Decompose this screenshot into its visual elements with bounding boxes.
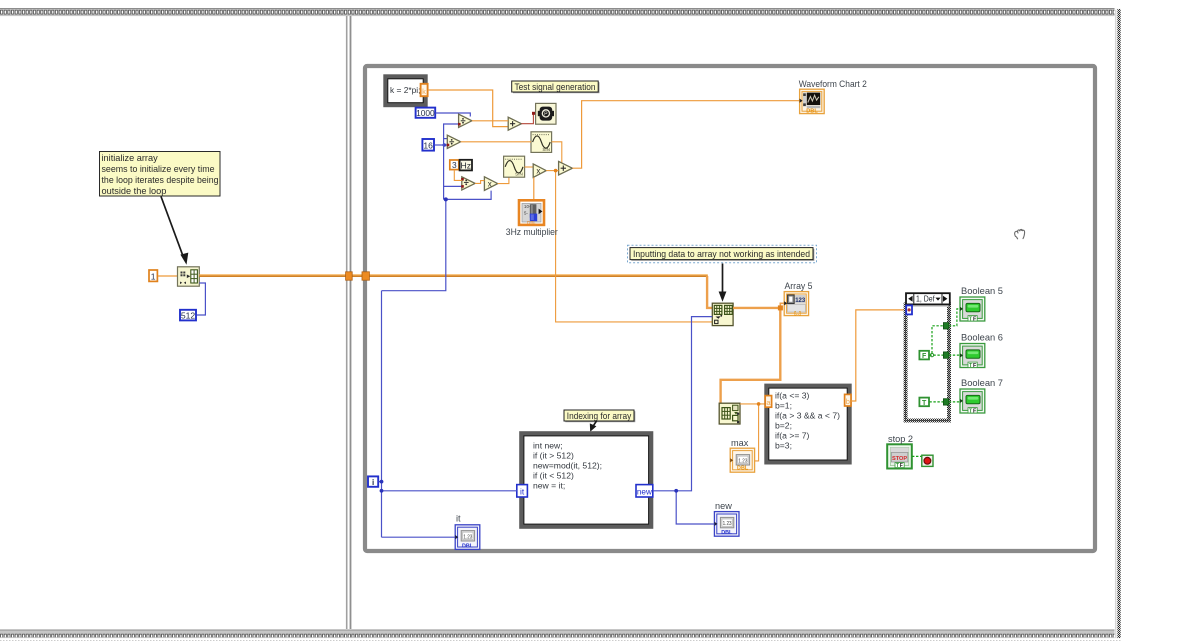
output terminal k [421, 84, 428, 96]
input terminal it [517, 485, 528, 497]
flat sequence structure top border (film strip) [0, 8, 1121, 16]
numeric constant 1000 [416, 108, 436, 119]
formula node if(a...) [767, 386, 850, 463]
case structure [906, 305, 949, 421]
svg-text:T: T [922, 400, 927, 407]
blue wire net from i terminal [379, 291, 517, 538]
flat sequence structure bottom border (film strip) [0, 630, 1121, 641]
svg-text:DBL: DBL [462, 543, 474, 549]
svg-text:F: F [900, 463, 903, 469]
svg-text:b=3;: b=3; [775, 441, 792, 451]
svg-text:if(a <= 3): if(a <= 3) [775, 391, 810, 401]
indicator Boolean 6 [960, 344, 985, 369]
wire 1000 to divide1 [436, 113, 471, 117]
wire replace node output to Array 5 and down [721, 303, 785, 403]
control 3Hz multiplier (slider icon) [519, 200, 544, 225]
svg-text:Waveform Chart 2: Waveform Chart 2 [799, 79, 867, 89]
svg-text:b: b [846, 397, 850, 406]
unit label Hz [460, 160, 472, 171]
label Inputting data to array not working as intended (selected) [628, 245, 817, 263]
svg-text:P: P [544, 112, 548, 118]
svg-text:outside the loop: outside the loop [102, 186, 167, 196]
wire multiply4 to sine2 [498, 177, 509, 183]
wire 3 to divide3 [454, 170, 462, 181]
svg-text:Hz: Hz [461, 161, 472, 171]
svg-text:DBL: DBL [806, 109, 818, 115]
sequence tunnel (orange) [346, 272, 353, 280]
svg-text:Test signal generation: Test signal generation [515, 82, 596, 92]
node Initialize Array [178, 267, 200, 286]
loop iteration terminal i [368, 476, 378, 487]
control stop 2 (icon) [887, 444, 912, 469]
case tunnels [943, 323, 948, 406]
boolean wire F to tunnels and Boolean 5/6 [929, 309, 960, 357]
svg-text:3: 3 [452, 160, 457, 170]
indicator new (icon) [714, 512, 739, 537]
svg-text:Indexing for array: Indexing for array [567, 411, 632, 421]
numeric constant 16 [422, 139, 434, 151]
indicator Waveform Chart 2 (icon) [800, 89, 825, 114]
svg-text:1.23: 1.23 [738, 458, 747, 464]
svg-text:Inputting data to array not wo: Inputting data to array not working as i… [633, 249, 810, 259]
case selector label bar [906, 293, 950, 304]
wire stop to loop condition button [912, 455, 922, 457]
wire slider to multiply6 [533, 177, 535, 200]
blue i-distribution wire [382, 124, 492, 291]
numeric constant 1 [149, 270, 157, 281]
svg-text:DBL: DBL [721, 530, 733, 536]
boolean constant T [919, 398, 929, 407]
svg-text:new = it;: new = it; [533, 480, 565, 490]
svg-text:STOP: STOP [892, 456, 907, 462]
divide triangle 2 [447, 135, 461, 148]
wire 512 to node [197, 283, 206, 315]
loop tunnel (orange) [362, 272, 369, 280]
svg-text:SIN: SIN [515, 172, 523, 177]
numeric constant 3 [450, 160, 459, 170]
svg-text:if (it > 512): if (it > 512) [533, 450, 574, 460]
svg-text:if(a >= 7): if(a >= 7) [775, 431, 810, 441]
output terminal b [845, 394, 851, 406]
node Sine 1 [531, 132, 552, 153]
node Wait Until Next ms Multiple (metronome) [536, 103, 556, 124]
svg-text:int new;: int new; [533, 440, 563, 450]
svg-text:DBL: DBL [527, 220, 536, 225]
node Array Max and Min [719, 403, 740, 424]
svg-text:DBL: DBL [737, 465, 749, 471]
main array wire (orange, across frames) [199, 275, 708, 276]
add triangle 5 [508, 117, 521, 130]
numeric constant 512 [180, 310, 196, 321]
svg-text:1.23: 1.23 [463, 534, 472, 540]
svg-text:Array 5: Array 5 [785, 281, 813, 291]
wire 16 to divide2 [434, 144, 447, 146]
svg-text:b=1;: b=1; [775, 401, 792, 411]
wire add5 to metronome (coerced) [521, 112, 536, 124]
svg-text:123: 123 [795, 298, 806, 304]
indicator Array 5 (icon) [784, 292, 808, 317]
add triangle 7 [559, 161, 573, 175]
svg-text:Boolean 5: Boolean 5 [961, 286, 1003, 296]
svg-text:seems to initialize every time: seems to initialize every time [102, 164, 215, 174]
svg-text:1, Def: 1, Def [916, 294, 935, 303]
svg-text:new: new [715, 501, 732, 511]
wire constant 1 to node [158, 275, 178, 277]
boolean constant F [919, 351, 929, 360]
wire divide1 to add5 [472, 120, 508, 122]
comment sticky note "initialize array" [100, 152, 221, 197]
junction dot on 16 wire [443, 143, 447, 147]
wire add7 to waveform chart [572, 101, 799, 169]
wire sine1 to add7 [552, 142, 562, 165]
svg-text:16: 16 [423, 141, 433, 151]
svg-text:it: it [520, 487, 525, 497]
svg-text:if (it < 512): if (it < 512) [533, 470, 574, 480]
label Indexing for array [564, 410, 635, 422]
sequence frame divider [347, 16, 351, 629]
hand cursor [1015, 229, 1025, 238]
svg-text:k = 2*pi;: k = 2*pi; [390, 86, 421, 95]
svg-text:if(a > 3 && a < 7): if(a > 3 && a < 7) [775, 411, 840, 421]
svg-text:x: x [536, 167, 540, 176]
svg-text:SIN: SIN [542, 147, 550, 152]
wire divide3 to multiply4 [475, 181, 484, 184]
formula node int new (indexing) [522, 434, 652, 527]
while loop [365, 66, 1095, 551]
label Test signal generation [512, 81, 600, 93]
wire k to multiply [428, 90, 508, 127]
indicator it (icon) [455, 525, 480, 550]
boolean wire T to Boolean 7 [929, 401, 960, 403]
blue wire net from new output [653, 317, 715, 524]
node Sine 2 [504, 156, 525, 177]
indicator Boolean 7 [960, 389, 985, 414]
svg-text:5-: 5- [524, 211, 528, 216]
multiply triangle 6 [533, 164, 546, 178]
wire divide2 to sine1 [461, 141, 531, 143]
svg-text:it: it [456, 514, 461, 524]
svg-text:x: x [488, 180, 492, 189]
case selector terminal [906, 305, 912, 314]
svg-text:1.23: 1.23 [723, 521, 732, 527]
annotation arrow from label to replace node [719, 264, 727, 302]
output terminal new [636, 485, 653, 497]
svg-text:the loop iterates despite bein: the loop iterates despite being [102, 175, 219, 185]
loop condition button [922, 455, 933, 466]
svg-text:T: T [896, 463, 899, 469]
svg-text:b=2;: b=2; [775, 421, 792, 431]
svg-text:stop 2: stop 2 [888, 434, 913, 444]
indicator max (icon) [730, 448, 754, 472]
svg-text:512: 512 [181, 311, 196, 321]
svg-text:Boolean 7: Boolean 7 [961, 378, 1003, 388]
svg-text:10-: 10- [524, 204, 531, 209]
wire b to case selector [851, 310, 907, 401]
svg-text:1: 1 [151, 271, 156, 281]
wire multiply6 to add7 with junction to replace node [546, 169, 712, 322]
svg-text:Boolean 6: Boolean 6 [961, 333, 1003, 343]
divide triangle 1 [458, 114, 472, 127]
svg-text:i: i [372, 478, 374, 487]
svg-text:new: new [637, 488, 652, 497]
divide triangle 3 [461, 177, 475, 190]
svg-text:initialize array: initialize array [102, 153, 159, 163]
svg-text:max: max [731, 438, 749, 448]
svg-text:F: F [922, 353, 927, 360]
multiply triangle 4 [484, 177, 497, 191]
wire main array down into replace node [707, 276, 712, 308]
node Replace Array Subset [712, 303, 733, 325]
svg-text:k: k [422, 87, 426, 96]
indicator Boolean 5 [960, 297, 985, 322]
svg-text:1000: 1000 [416, 108, 435, 118]
svg-text:new=mod(it, 512);: new=mod(it, 512); [533, 460, 602, 470]
svg-text:[..]: [..] [794, 311, 801, 317]
wire array max to formula a-input and max indicator [740, 402, 766, 461]
annotation arrow from note to Initialize Array node [161, 197, 188, 265]
input terminal a [765, 396, 771, 408]
svg-text:3Hz multiplier: 3Hz multiplier [506, 227, 558, 237]
annotation arrow to formula node [590, 421, 597, 432]
formula node k = 2*pi [386, 77, 426, 106]
flat sequence structure right border (dotted) [1115, 8, 1122, 638]
wire sine2 to multiply6 [525, 166, 534, 168]
